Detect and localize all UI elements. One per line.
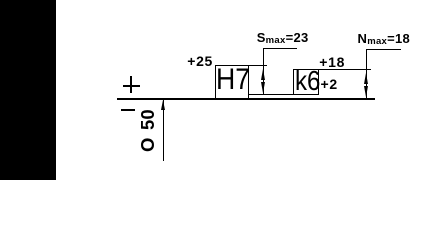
lower deviation line +2 (249, 94, 293, 95)
label k6 (295, 67, 320, 95)
upper deviation line +18 stub (319, 69, 371, 70)
title block band (black sidebar) (0, 0, 56, 180)
minus sign (121, 109, 135, 111)
Smax dimension line (0, 0, 1, 1)
diameter label O 50 (139, 109, 158, 152)
Nmax dimension line (0, 0, 1, 1)
label +18 (319, 55, 345, 69)
plus sign (0, 0, 1, 1)
label H7 (216, 65, 250, 95)
label +25 (187, 54, 213, 68)
shaft tolerance box k6 (293, 69, 319, 95)
label Nmax=18 (358, 32, 411, 47)
label +2 (321, 77, 338, 91)
label Smax=23 (257, 31, 309, 46)
upper deviation line +25 stub (249, 65, 267, 66)
dimension arrow for O 50 (0, 0, 1, 1)
zero line (117, 98, 376, 100)
hole tolerance box H7 (215, 65, 249, 100)
